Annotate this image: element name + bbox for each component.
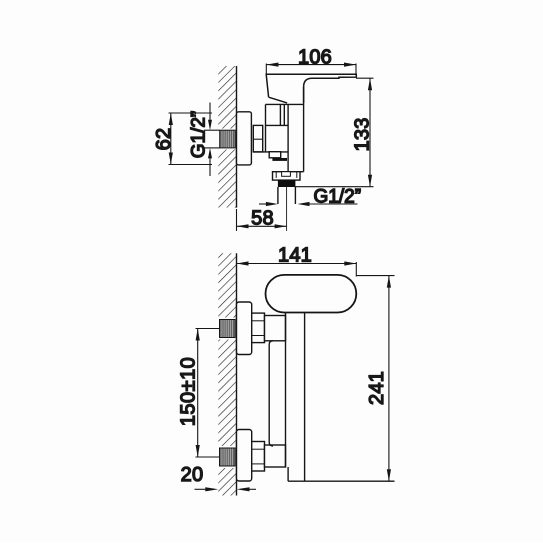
black outlet ring [278,180,296,187]
wall (hatched) [218,253,237,495]
thin gasket band [272,158,287,161]
hose nut [273,172,301,180]
threaded eccentric (upper) [220,320,236,338]
62 dimension [169,113,213,165]
wall (hatched) [218,66,237,208]
supply pipe (upper) [265,316,286,341]
svg-text:G1/2”: G1/2” [189,111,210,159]
escutcheon flange (top view) [237,112,252,165]
escutcheon (upper) [237,302,252,355]
outlet pipe [277,187,279,204]
svg-text:106: 106 [298,47,332,69]
150±10 dimension [196,329,220,458]
svg-text:133: 133 [352,118,374,152]
handle lever [266,74,356,103]
hex connector [253,125,262,151]
body tube [285,313,287,468]
outlet step [269,152,281,158]
centerline [286,187,288,231]
supply pipe (lower) [265,445,286,467]
133 dimension [295,78,373,187]
hex nut (lower) [252,442,265,472]
body profile between connections [269,341,273,446]
svg-text:62: 62 [153,128,175,151]
threaded eccentric (top view) [220,130,236,148]
svg-text:241: 241 [366,371,388,405]
hex nut (upper) [252,313,265,343]
svg-text:150±10: 150±10 [178,357,200,427]
G1/2 thread dimension (left, vertical) [204,103,220,177]
handle cap bottom [269,97,288,103]
body oval top [266,275,357,313]
241 dimension [356,276,394,482]
threaded eccentric (lower) [220,448,236,466]
svg-text:20: 20 [181,464,204,486]
body (valve housing) [253,87,303,172]
escutcheon (lower) [237,430,252,482]
